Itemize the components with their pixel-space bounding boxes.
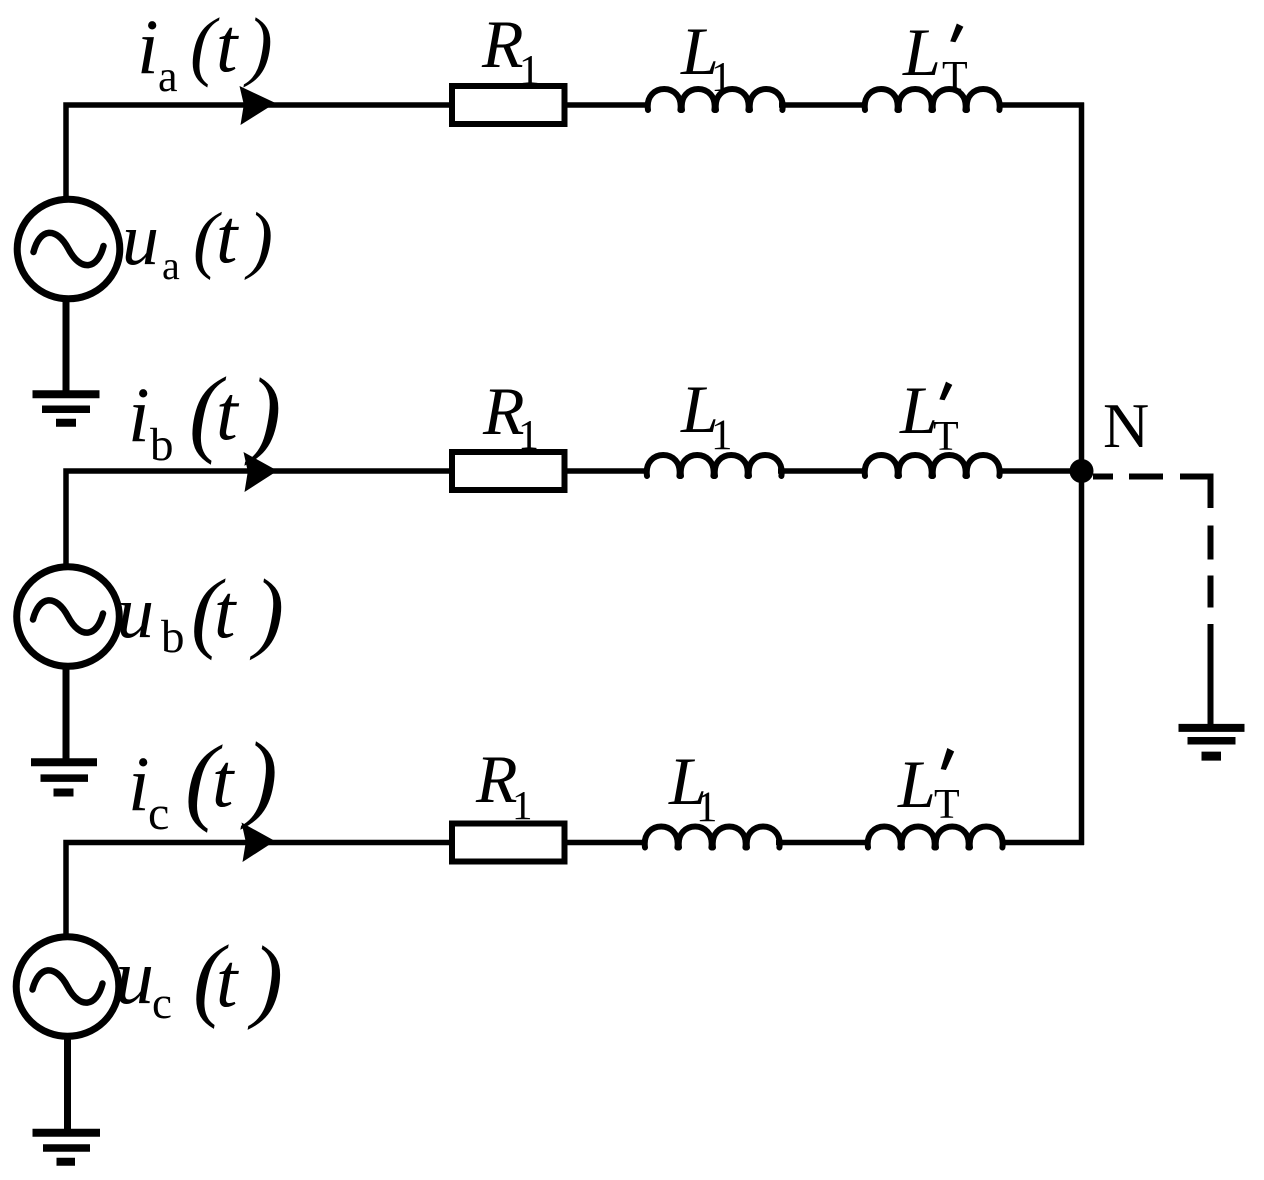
svg-text:1: 1: [512, 782, 533, 828]
label L1 row b: [680, 371, 733, 459]
svg-text:): ): [247, 928, 283, 1031]
svg-text:t: t: [214, 568, 237, 654]
dashed neutral wire from node N: [1093, 477, 1211, 608]
svg-text:t: t: [212, 737, 235, 823]
svg-text:1: 1: [711, 412, 733, 459]
wire between L1 and LT' row c: [776, 840, 870, 846]
svg-text:L: L: [902, 14, 941, 90]
inductor L1 row a: [648, 89, 783, 110]
wire between L1 and LT' row b: [778, 468, 867, 474]
label LT' row c: [897, 746, 960, 828]
wire: phase c left corner from source uc to resistor R1: [66, 843, 452, 939]
svg-text:L: L: [897, 746, 936, 822]
wire: phase a left corner from source ua to resistor R1: [66, 105, 452, 199]
wire between R1 and L1 row a: [565, 102, 651, 108]
wire source uc to ground: [64, 1034, 71, 1129]
sine symbol ub: [33, 600, 103, 632]
arrow: current direction i_b: [244, 452, 278, 492]
svg-text:a: a: [158, 52, 178, 101]
label i_c(t): [128, 723, 278, 840]
label L1 row c: [668, 743, 718, 831]
svg-text:T: T: [933, 414, 959, 460]
inductor L1 row c: [645, 827, 780, 848]
voltage source uc circle: [16, 937, 119, 1037]
label R1 row b: [482, 373, 539, 459]
resistor R1 row c: [452, 824, 565, 862]
wire from LT' to right bus row a: [997, 102, 1084, 108]
right vertical bus wire: [1079, 103, 1085, 846]
wire from LT' to right bus row c: [1000, 840, 1084, 846]
ground c: [33, 1133, 101, 1162]
svg-text:a: a: [162, 243, 180, 288]
svg-text:): ): [249, 562, 284, 661]
label ua(t): [122, 193, 273, 288]
sine symbol uc: [33, 970, 103, 1002]
label i_a(t): [137, 2, 273, 101]
label ub(t): [117, 562, 284, 663]
arrow: current direction i_a: [240, 86, 276, 125]
svg-text:u: u: [117, 572, 154, 654]
label LT' row b: [899, 372, 959, 460]
svg-text:L: L: [899, 372, 938, 448]
label R1 row a: [481, 6, 540, 94]
resistor R1 row a: [452, 86, 565, 124]
svg-text:): ): [244, 198, 273, 281]
ground a: [33, 394, 100, 423]
svg-text:t: t: [216, 369, 240, 456]
svg-text:): ): [244, 359, 281, 466]
node N junction dot: [1070, 459, 1094, 483]
inductor LT' row c: [868, 827, 1003, 848]
ground right (neutral): [1179, 728, 1245, 756]
svg-text:u: u: [122, 199, 159, 281]
label uc(t): [115, 927, 283, 1031]
wire between R1 and L1 row b: [565, 468, 650, 474]
svg-text:T: T: [934, 782, 960, 828]
svg-text:): ): [243, 2, 273, 88]
svg-text:t: t: [216, 937, 239, 1023]
svg-text:b: b: [150, 419, 174, 471]
label R1 row c: [475, 741, 533, 828]
svg-text:i: i: [128, 740, 150, 827]
arrow: current direction i_c: [242, 823, 276, 863]
svg-text:1: 1: [519, 48, 540, 94]
svg-text:T: T: [942, 54, 968, 100]
ground b: [31, 762, 97, 792]
svg-text:N: N: [1103, 390, 1149, 461]
inductor LT' row a: [865, 89, 1000, 110]
wire stem to right ground: [1208, 624, 1214, 728]
wire source ua to ground: [63, 296, 70, 391]
wire source ub to ground: [63, 664, 70, 759]
label LT' row a: [902, 14, 968, 100]
voltage source ub circle: [17, 567, 120, 667]
svg-text:1: 1: [711, 55, 732, 101]
wire: phase b left corner from source ub to resistor R1: [66, 471, 452, 568]
svg-text:c: c: [148, 787, 169, 840]
svg-text:t: t: [216, 193, 239, 279]
label i_b(t): [128, 358, 281, 471]
inductor L1 row b: [647, 455, 782, 476]
wire between L1 and LT' row a: [779, 102, 867, 108]
svg-text:1: 1: [518, 413, 539, 459]
label L1 row a: [680, 13, 732, 101]
svg-text:): ): [240, 723, 278, 831]
voltage source ua circle: [17, 199, 120, 299]
svg-text:1: 1: [696, 784, 718, 831]
sine symbol ua: [34, 233, 104, 265]
svg-text:u: u: [115, 933, 154, 1020]
wire between R1 and L1 row c: [565, 840, 648, 846]
wire from LT' to node N row b: [997, 468, 1084, 474]
svg-text:i: i: [137, 3, 159, 90]
svg-text:b: b: [161, 611, 185, 663]
svg-text:R: R: [481, 6, 524, 82]
inductor LT' row b: [865, 455, 1000, 476]
svg-text:i: i: [128, 371, 150, 458]
svg-text:c: c: [152, 978, 172, 1028]
resistor R1 row b: [452, 452, 565, 490]
svg-text:t: t: [216, 2, 239, 88]
